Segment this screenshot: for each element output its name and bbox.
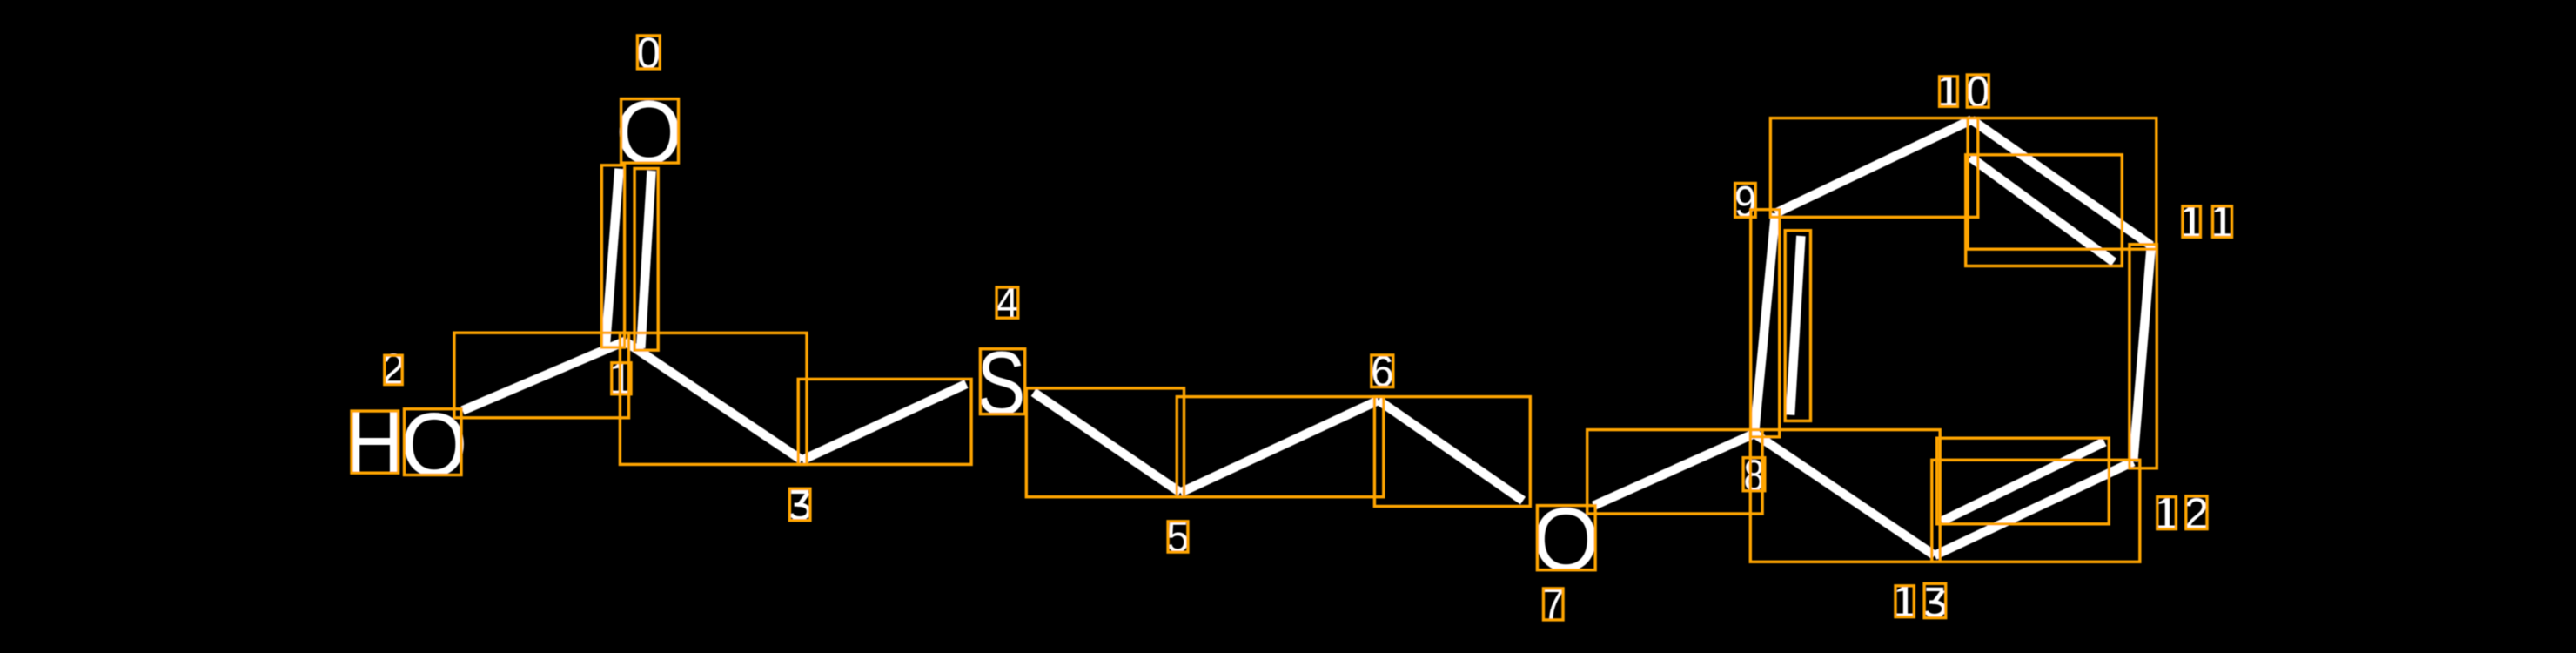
box index 9 <box>1735 184 1756 218</box>
box index 2 <box>385 355 402 384</box>
index 1 (atom C1) <box>613 363 628 394</box>
box bond S4-C5 <box>1026 388 1184 497</box>
bond C12-C13 outer line <box>1935 461 2133 555</box>
index 3 (atom C3) <box>791 490 808 494</box>
box index 0 <box>637 36 660 69</box>
index 13 digit 1 (atom C13) <box>1897 586 1913 617</box>
bond S4-C5 <box>1034 393 1181 493</box>
bond C12=C13 inner line <box>1942 442 2104 522</box>
index 10 digit 1 (atom C10) <box>1941 76 1956 107</box>
box bond C10=C11 inner line <box>1966 155 2123 266</box>
box bond C1-C3 <box>620 333 807 464</box>
box bond C10-C11 outer line <box>1968 118 2157 250</box>
box bond C5-C6 <box>1177 397 1384 497</box>
bond C1-O2 (to HO) <box>463 341 626 411</box>
box atom O7 label <box>1537 506 1595 570</box>
box bond C8=C9 inner line <box>1785 231 1810 421</box>
box bond C12-C13 outer line <box>1932 460 2140 562</box>
box atom O2 label H <box>352 411 399 473</box>
bond C6-O7 <box>1379 401 1523 501</box>
box index 13 digit 1 <box>1895 586 1914 617</box>
bond C1=O0 double-bond line b <box>641 171 651 348</box>
box index 10 digit 0 <box>1967 75 1989 107</box>
bond C13-C8 <box>1754 434 1935 555</box>
bond C9-C10 <box>1775 120 1972 214</box>
bond C5-C6 <box>1180 401 1379 493</box>
index 13 digit 3 (atom C13) <box>1926 588 1943 591</box>
index 11 second digit 1 (atom C11) <box>2214 206 2230 238</box>
box index 13 digit 3 <box>1924 583 1946 617</box>
box index 7 <box>1544 589 1564 620</box>
bond C10=C11 inner line <box>1970 157 2114 262</box>
box bond O7-C8 <box>1587 430 1762 514</box>
box bond C6-O7 <box>1374 397 1530 507</box>
box bond C1-O2 <box>454 333 629 418</box>
svg-text:9: 9 <box>1734 178 1756 226</box>
svg-text:H: H <box>345 394 404 493</box>
box index 1 <box>612 363 631 394</box>
box bond C11-C12 <box>2130 245 2157 468</box>
bond C8-C9 outer line <box>1754 213 1775 434</box>
box index 5 <box>1168 522 1188 552</box>
bond C11-C12 <box>2133 246 2151 461</box>
index 12 digit 1 (atom C12) <box>2158 498 2174 529</box>
box index 4 <box>996 287 1018 318</box>
box index 11 digit 1 <box>2183 206 2201 238</box>
bond C8=C9 inner line <box>1790 236 1801 415</box>
box bond C9-C10 <box>1770 118 1977 218</box>
bond C1-C3 <box>625 341 802 461</box>
box index 10 digit 1 <box>1940 77 1958 106</box>
box index 11 second digit 1 <box>2213 206 2232 238</box>
box atom S4 label <box>980 349 1024 414</box>
box bond C13-C8 <box>1750 430 1940 562</box>
box index 8 <box>1743 458 1765 491</box>
index 11 digit 1 (atom C11) <box>2184 206 2199 238</box>
bond C1=O0 double-bond line a <box>606 169 620 347</box>
box bond C3-S4 <box>798 379 971 464</box>
box bond C8-C9 outer line <box>1751 210 1780 437</box>
box atom O2 label O <box>405 409 462 475</box>
box index 12 digit 2 <box>2186 496 2207 529</box>
box index 6 <box>1372 355 1393 387</box>
box bond C1=O0 line a <box>601 165 624 347</box>
box index 12 digit 1 <box>2157 497 2177 529</box>
box bond C1=O0 line b <box>634 169 658 351</box>
bond C3-S4 <box>802 384 967 461</box>
box index 3 <box>789 488 810 520</box>
svg-text:4: 4 <box>996 279 1019 327</box>
bond O7-C8 <box>1593 434 1754 506</box>
box bond C12=C13 inner line <box>1937 438 2110 524</box>
bond C10-C11 outer line <box>1972 120 2151 246</box>
box atom O0 label <box>621 99 679 164</box>
